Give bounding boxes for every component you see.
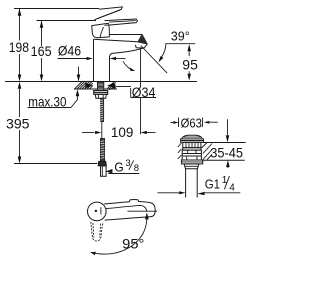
svg-text:95°: 95° <box>122 236 144 252</box>
svg-text:Ø34: Ø34 <box>132 85 156 100</box>
svg-text:4: 4 <box>229 182 235 193</box>
svg-text:395: 395 <box>6 115 30 131</box>
svg-text:1: 1 <box>222 175 228 186</box>
svg-text:8: 8 <box>134 163 139 174</box>
svg-text:95: 95 <box>182 56 198 72</box>
svg-text:G: G <box>114 160 123 175</box>
svg-text:G1: G1 <box>205 176 220 191</box>
svg-text:max.30: max.30 <box>28 93 66 109</box>
svg-text:Ø63: Ø63 <box>181 115 202 130</box>
svg-text:3: 3 <box>125 158 130 169</box>
svg-text:Ø46: Ø46 <box>58 42 81 58</box>
svg-text:165: 165 <box>31 43 52 59</box>
svg-text:35-45: 35-45 <box>210 145 243 161</box>
svg-text:198: 198 <box>9 39 29 55</box>
svg-text:39°: 39° <box>171 29 190 44</box>
svg-text:109: 109 <box>111 124 134 140</box>
